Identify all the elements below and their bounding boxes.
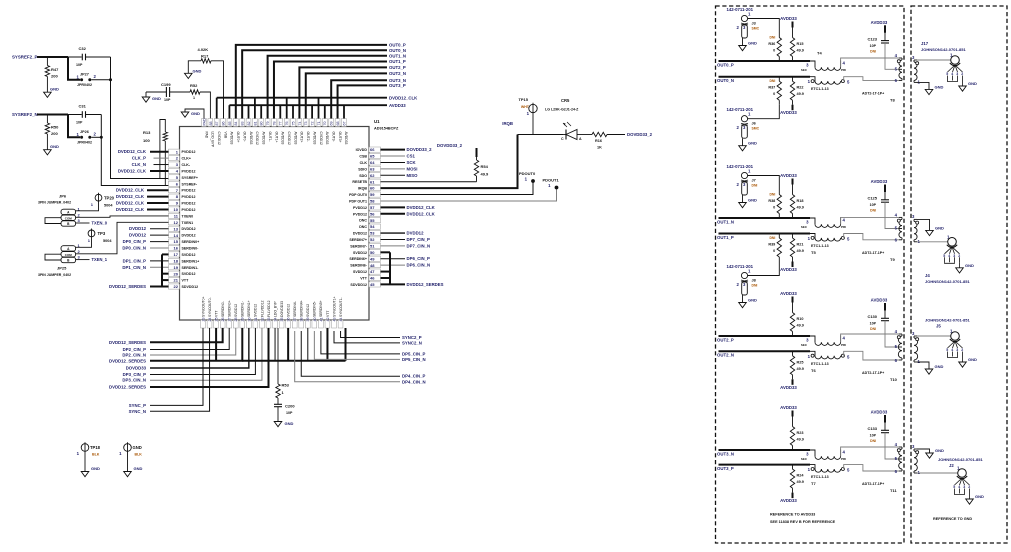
- svg-text:5004: 5004: [103, 239, 112, 243]
- connector J7 142-0711-201: [727, 164, 758, 208]
- svg-text:43: 43: [332, 318, 336, 322]
- svg-text:DVDD12_SERDES: DVDD12_SERDES: [109, 284, 146, 289]
- svg-text:42: 42: [326, 318, 330, 322]
- svg-text:22: 22: [174, 284, 179, 289]
- svg-text:OUT2_P: OUT2_P: [717, 337, 734, 342]
- svg-text:10: 10: [174, 207, 179, 212]
- svg-text:16: 16: [174, 246, 179, 251]
- svg-text:R22: R22: [797, 86, 804, 90]
- wire OUT1_P: [274, 62, 387, 119]
- svg-text:45: 45: [370, 282, 375, 287]
- resistor R16: [592, 132, 607, 136]
- wire DOVDD33 bottom-left: [150, 328, 249, 368]
- svg-text:CS1: CS1: [407, 154, 416, 159]
- svg-text:COM: COM: [65, 216, 73, 220]
- svg-text:85: 85: [228, 122, 232, 126]
- svg-text:SVDD12: SVDD12: [353, 251, 367, 255]
- wire JP25 COM-B bracket: [45, 254, 61, 260]
- svg-text:J6: J6: [752, 122, 756, 126]
- svg-text:13: 13: [174, 226, 179, 231]
- svg-text:34: 34: [273, 318, 277, 322]
- wire JP6 COM-B bracket: [45, 218, 61, 224]
- svg-text:26: 26: [221, 318, 225, 322]
- svg-text:GND: GND: [935, 84, 944, 89]
- svg-text:79: 79: [266, 122, 270, 126]
- test point TP15: [529, 104, 537, 112]
- wire pin53 DVDD12: [381, 232, 406, 234]
- svg-text:T9: T9: [890, 257, 895, 262]
- svg-text:SERDIN0+: SERDIN0+: [182, 240, 200, 244]
- svg-text:ETC1-1-13: ETC1-1-13: [811, 475, 829, 479]
- wire pin65 CS1: [381, 155, 406, 157]
- svg-text:TP3: TP3: [98, 231, 106, 236]
- svg-text:DP4_CIN_P: DP4_CIN_P: [402, 374, 426, 379]
- svg-text:AVDD33: AVDD33: [389, 103, 406, 108]
- wire PDOUT1 pin58: [381, 189, 557, 201]
- wire T5 pin4 to T9 pin4: [841, 217, 899, 224]
- resistor R25: [792, 351, 794, 356]
- wire TP15 node: [518, 134, 564, 136]
- svg-text:AVDD33: AVDD33: [780, 385, 797, 390]
- svg-text:SVDD12: SVDD12: [182, 272, 196, 276]
- test point GND: [124, 444, 132, 452]
- svg-text:49.9: 49.9: [797, 49, 804, 53]
- resistor R10: [792, 303, 794, 309]
- wire OUT2_N: [719, 350, 811, 352]
- wire pin62 MISO: [381, 174, 406, 176]
- svg-text:ADT2-1T-1P+: ADT2-1T-1P+: [862, 482, 884, 486]
- svg-text:R13: R13: [143, 130, 151, 135]
- wire DVDD12_SERDES bottom-left: [150, 328, 242, 361]
- svg-text:74: 74: [298, 122, 302, 126]
- svg-text:OUT3_P: OUT3_P: [717, 466, 734, 471]
- svg-text:OUT0-: OUT0-: [242, 132, 246, 142]
- svg-text:46: 46: [370, 276, 375, 281]
- svg-text:BLK: BLK: [92, 453, 100, 457]
- ground R47: [44, 92, 52, 97]
- svg-text:GND: GND: [134, 466, 143, 471]
- svg-text:C123: C123: [867, 36, 877, 41]
- op-amp U1 AD9154 IC body: [180, 127, 370, 321]
- svg-text:47: 47: [370, 269, 375, 274]
- svg-text:SERDIN7+: SERDIN7+: [349, 238, 367, 242]
- svg-text:200: 200: [51, 74, 58, 79]
- svg-text:OUT1_P: OUT1_P: [717, 235, 734, 240]
- svg-text:T4: T4: [817, 51, 822, 56]
- svg-text:JP26: JP26: [80, 130, 89, 134]
- svg-text:4: 4: [958, 485, 960, 489]
- wire DP4_CIN_N bottom-right: [295, 331, 400, 382]
- svg-text:10P: 10P: [870, 322, 877, 326]
- wire T4 pin4 to T8 pin4: [841, 58, 899, 67]
- wire pin16 DP0_CIN_N: [150, 247, 169, 249]
- svg-text:44: 44: [339, 318, 343, 322]
- svg-text:J4: J4: [925, 273, 930, 278]
- wire DP2_CIN_P bottom-left: [150, 328, 229, 350]
- wire pin14 DVDD12: [150, 234, 169, 236]
- svg-text:AVDD33: AVDD33: [230, 132, 234, 145]
- svg-text:DVDD12_CLK: DVDD12_CLK: [116, 207, 145, 212]
- dashed box GND reference: [911, 6, 1007, 543]
- svg-text:WHT: WHT: [521, 105, 530, 109]
- svg-text:OUT3_P: OUT3_P: [389, 83, 406, 88]
- wire T4 pin5 to T8 pin6: [844, 77, 899, 81]
- transformer T4 ETC1-1-13: [801, 51, 850, 92]
- svg-text:JOHNSON142-0701-851: JOHNSON142-0701-851: [921, 47, 966, 52]
- svg-text:GND: GND: [193, 69, 202, 74]
- svg-text:AVDD33: AVDD33: [780, 498, 797, 503]
- svg-text:C31: C31: [79, 104, 87, 109]
- svg-text:84: 84: [234, 122, 238, 126]
- svg-text:DP4_CIN_N: DP4_CIN_N: [402, 379, 426, 384]
- wire C31 to node: [86, 114, 102, 116]
- svg-text:OUT0_P: OUT0_P: [717, 62, 734, 67]
- svg-text:C130: C130: [867, 314, 877, 319]
- svg-text:4.02K: 4.02K: [198, 47, 209, 52]
- svg-text:PRI: PRI: [841, 225, 846, 229]
- svg-text:DVDD12_SERDES: DVDD12_SERDES: [109, 358, 146, 363]
- svg-text:U1: U1: [374, 119, 380, 124]
- svg-text:40: 40: [313, 318, 317, 322]
- svg-text:0: 0: [773, 49, 775, 53]
- svg-text:R54: R54: [481, 164, 489, 169]
- svg-text:49.9: 49.9: [481, 172, 490, 177]
- svg-text:GND: GND: [935, 448, 944, 453]
- capacitor C200: [277, 398, 279, 404]
- svg-text:DVDD12_SERDES: DVDD12_SERDES: [109, 385, 146, 390]
- svg-text:C200: C200: [285, 404, 295, 409]
- node junction: [109, 78, 112, 81]
- svg-text:SEE 11838 REV B FOR REFERENCE: SEE 11838 REV B FOR REFERENCE: [770, 520, 836, 524]
- svg-text:DNI: DNI: [752, 284, 758, 288]
- resistor R21: [792, 234, 794, 239]
- svg-text:OUT1_P: OUT1_P: [389, 59, 406, 64]
- transformer T11 ADT2-1T-1P+: [862, 442, 921, 493]
- wire SYSREF_P vertical to pin5: [111, 57, 170, 179]
- wire T8 pin3 to jack: [917, 59, 951, 61]
- svg-text:SVDD12: SVDD12: [234, 304, 238, 317]
- connector J4 JOHNSON142-0701-851: [925, 234, 974, 284]
- svg-text:OUT2_N: OUT2_N: [389, 71, 406, 76]
- svg-text:REFERENCE TO AVDD33: REFERENCE TO AVDD33: [770, 513, 815, 517]
- wire DVDD12_SERDES bottom-left: [150, 328, 223, 342]
- resistor R23: [792, 417, 794, 423]
- svg-text:R21: R21: [797, 243, 804, 247]
- svg-text:CLK_P: CLK_P: [132, 156, 146, 161]
- svg-text:64: 64: [370, 160, 375, 165]
- svg-text:3: 3: [963, 485, 965, 489]
- svg-text:PVDD12: PVDD12: [353, 206, 367, 210]
- wire pin10 DVDD12_CLK: [147, 208, 169, 210]
- wire T10 pin1 to gnd: [917, 362, 929, 369]
- svg-text:DOVDD33: DOVDD33: [280, 301, 284, 317]
- svg-text:65: 65: [370, 154, 375, 159]
- U1 left pins: [169, 149, 200, 289]
- connector J8 142-0711-201: [727, 264, 758, 308]
- wire R52 to LDO_BYP pin: [200, 92, 210, 119]
- svg-text:53: 53: [370, 231, 375, 236]
- svg-text:83: 83: [241, 122, 245, 126]
- wire pin1 DVDD12_CLK: [150, 151, 169, 153]
- svg-text:OUT1-: OUT1-: [268, 132, 272, 142]
- svg-text:75: 75: [291, 122, 295, 126]
- svg-text:SERDIN7-: SERDIN7-: [350, 244, 368, 248]
- wire OUT0_P: [236, 45, 387, 119]
- resistor R15: [792, 28, 794, 34]
- svg-text:ETC1-1-13: ETC1-1-13: [811, 244, 829, 248]
- wire T11 pin3 to gnd: [917, 449, 930, 453]
- svg-text:DVDD12: DVDD12: [182, 234, 196, 238]
- svg-text:23: 23: [201, 318, 205, 322]
- wire TP20 to JP6 pin1: [76, 201, 99, 211]
- svg-text:2: 2: [961, 72, 963, 76]
- svg-text:JOHNSON142-0701-851: JOHNSON142-0701-851: [925, 318, 970, 323]
- svg-text:ETC1-1-13: ETC1-1-13: [811, 362, 829, 366]
- wire JP26 pin2: [91, 136, 101, 138]
- svg-text:SVDD12: SVDD12: [306, 304, 310, 317]
- wire DP4_CIN_P bottom-right: [301, 331, 400, 376]
- svg-text:PDP OUT0: PDP OUT0: [349, 193, 367, 197]
- svg-text:SYNCOUT0+: SYNCOUT0+: [201, 297, 205, 317]
- svg-text:ADT2-1T-1P+: ADT2-1T-1P+: [862, 91, 884, 95]
- svg-text:DVDD12_SERDES: DVDD12_SERDES: [109, 340, 146, 345]
- svg-text:58: 58: [370, 199, 375, 204]
- svg-text:10P: 10P: [164, 98, 171, 102]
- svg-text:LDO_BYP: LDO_BYP: [211, 132, 215, 148]
- svg-text:DVDD12: DVDD12: [182, 227, 196, 231]
- svg-text:IOVDD: IOVDD: [356, 148, 368, 152]
- wire T6 pin4 to T10 pin4: [841, 334, 899, 342]
- svg-text:DNI: DNI: [870, 209, 876, 213]
- svg-text:86: 86: [221, 122, 225, 126]
- svg-text:SVDD12: SVDD12: [353, 270, 367, 274]
- svg-text:20: 20: [174, 271, 179, 276]
- svg-text:GND: GND: [285, 421, 294, 426]
- svg-text:AVDD33: AVDD33: [780, 173, 797, 178]
- wire pin4 DVDD12_CLK: [150, 170, 169, 172]
- svg-text:GND: GND: [748, 141, 757, 146]
- wire T7 pin4 to T11 pin4: [841, 447, 899, 456]
- svg-text:PDOUT0: PDOUT0: [519, 171, 536, 176]
- svg-text:J3: J3: [752, 22, 756, 26]
- svg-text:DNI: DNI: [769, 36, 775, 40]
- svg-text:200: 200: [51, 131, 58, 136]
- wire pin57 DVDD12_CLK: [381, 206, 406, 208]
- wire SYSREF2_N: [37, 114, 68, 116]
- wire TXEN_0 stub: [76, 222, 90, 224]
- svg-text:62: 62: [370, 173, 375, 178]
- svg-text:DNC: DNC: [359, 219, 367, 223]
- svg-text:OUT0_P: OUT0_P: [389, 43, 406, 48]
- test point TP18: [81, 444, 89, 452]
- wire pin19 DP1_CIN_N: [150, 266, 169, 268]
- svg-text:SYNC_P: SYNC_P: [129, 403, 146, 408]
- svg-text:DP2_CIN_P: DP2_CIN_P: [123, 347, 147, 352]
- wire OUT2_P: [299, 67, 387, 118]
- ground C199: [142, 97, 150, 102]
- resistor R39 DNI: [778, 234, 780, 239]
- svg-text:57: 57: [370, 205, 375, 210]
- resistor R18: [792, 185, 794, 191]
- wire T9 pin1 to jack: [917, 241, 948, 243]
- svg-text:COM: COM: [65, 253, 73, 257]
- svg-text:33: 33: [267, 318, 271, 322]
- svg-text:ETC1-1-13: ETC1-1-13: [811, 87, 829, 91]
- svg-text:71: 71: [317, 122, 321, 126]
- svg-text:DP1_CIN_P: DP1_CIN_P: [123, 258, 147, 263]
- svg-text:J17: J17: [921, 41, 929, 46]
- U1 right pins: [349, 147, 380, 287]
- svg-text:OUT1_N: OUT1_N: [717, 219, 734, 224]
- svg-text:T8: T8: [890, 97, 895, 102]
- resistor R50: [46, 115, 48, 124]
- svg-text:SERDIN0-: SERDIN0-: [221, 301, 225, 317]
- svg-text:0: 0: [773, 92, 775, 96]
- svg-text:DVDD12_CLK: DVDD12_CLK: [407, 205, 436, 210]
- svg-text:ADT2-1T-1P+: ADT2-1T-1P+: [862, 251, 884, 255]
- svg-text:SEC: SEC: [801, 343, 808, 347]
- svg-text:DNI: DNI: [870, 439, 876, 443]
- wire OUT1_P: [719, 233, 811, 235]
- svg-text:81: 81: [253, 122, 257, 126]
- svg-text:28: 28: [234, 318, 238, 322]
- svg-text:R23: R23: [797, 431, 804, 435]
- svg-text:SYSREF2_P: SYSREF2_P: [12, 55, 37, 60]
- svg-text:25: 25: [215, 318, 219, 322]
- wire LDO stub p34: [274, 328, 276, 361]
- wire IRQB pin60: [381, 135, 518, 189]
- svg-text:14: 14: [174, 233, 179, 238]
- wire DP3_CIN_N bottom-left: [150, 328, 262, 380]
- svg-text:52: 52: [370, 237, 375, 242]
- svg-text:48: 48: [370, 263, 375, 268]
- svg-text:R25: R25: [797, 360, 804, 364]
- wire DVDD12_SERDES bus pins 17,20,21,22: [161, 254, 163, 286]
- wire T9 pin3 to gnd: [917, 219, 930, 230]
- svg-text:GND: GND: [50, 87, 59, 92]
- svg-text:R18: R18: [797, 199, 804, 203]
- svg-text:AVDD33: AVDD33: [312, 132, 316, 145]
- svg-text:0: 0: [773, 249, 775, 253]
- svg-text:R53: R53: [282, 383, 290, 388]
- wire DVDD12_CLK top rail: [217, 97, 387, 99]
- svg-text:12: 12: [174, 220, 179, 225]
- svg-text:DVDD12_SERDES: DVDD12_SERDES: [407, 282, 444, 287]
- svg-text:55: 55: [370, 218, 375, 223]
- svg-text:JOHNSON142-0701-851: JOHNSON142-0701-851: [925, 279, 970, 284]
- svg-text:OUT3+: OUT3+: [338, 132, 342, 143]
- svg-text:63: 63: [370, 166, 375, 171]
- svg-text:SERDIN5-: SERDIN5-: [313, 301, 317, 317]
- svg-text:SYSREF+: SYSREF+: [182, 176, 198, 180]
- svg-text:A: A: [579, 137, 582, 141]
- wire SVDD stub p39: [307, 328, 309, 361]
- wire pin3 CLK_N: [154, 164, 169, 166]
- svg-text:AVDD33: AVDD33: [780, 267, 797, 272]
- svg-text:50: 50: [370, 250, 375, 255]
- ground PAD: [185, 109, 204, 119]
- wire pin63 MOSI: [381, 168, 406, 170]
- node PDOUT1: [555, 186, 559, 190]
- svg-text:2: 2: [958, 254, 960, 258]
- svg-text:SYNC_N: SYNC_N: [129, 409, 146, 414]
- svg-text:MISO: MISO: [407, 173, 419, 178]
- wire OUT2_P: [719, 335, 811, 337]
- wire SYSREF_N vertical to pin6: [101, 115, 169, 186]
- wire OUT3_N: [719, 449, 811, 451]
- svg-text:CR5: CR5: [561, 98, 570, 103]
- svg-text:TXEN0: TXEN0: [182, 214, 194, 218]
- svg-text:R10: R10: [797, 317, 804, 321]
- svg-text:3: 3: [956, 72, 958, 76]
- svg-text:DVDD12_CLK: DVDD12_CLK: [389, 95, 418, 100]
- svg-text:PVDD12: PVDD12: [353, 212, 367, 216]
- svg-text:SERDIN5+: SERDIN5+: [319, 300, 323, 317]
- wire OUT0_P: [719, 60, 811, 62]
- U1 bottom pins: [201, 297, 343, 328]
- svg-text:21: 21: [174, 278, 179, 283]
- svg-text:SEC: SEC: [801, 68, 808, 72]
- svg-text:C125: C125: [867, 196, 877, 201]
- wire DP5_CIN_P bottom-right: [321, 331, 400, 354]
- svg-text:DOVDD33_2: DOVDD33_2: [627, 132, 653, 137]
- svg-text:SDVDD12: SDVDD12: [182, 285, 199, 289]
- wire pin7 DVDD12_CLK: [147, 189, 169, 191]
- wire pin2 CLK_P: [154, 157, 169, 159]
- svg-text:T6: T6: [811, 368, 816, 373]
- svg-text:5: 5: [946, 72, 948, 76]
- svg-text:OUT3-: OUT3-: [332, 132, 336, 142]
- svg-text:SYSREF2_N: SYSREF2_N: [12, 112, 38, 117]
- connector J17 JOHNSON142-0701-851: [921, 41, 977, 91]
- wire TXEN_1 stub: [76, 259, 90, 261]
- wire SYSREF2_P: [37, 56, 68, 58]
- svg-text:SMC: SMC: [752, 27, 760, 31]
- connector J6 142-0711-201: [727, 107, 760, 151]
- svg-text:AVDD33: AVDD33: [780, 291, 797, 296]
- test point TP3: [88, 230, 95, 237]
- svg-text:DP3_CIN_N: DP3_CIN_N: [122, 378, 146, 383]
- svg-text:R39: R39: [768, 243, 775, 247]
- svg-text:AVDD33: AVDD33: [871, 410, 888, 415]
- svg-text:87: 87: [215, 122, 219, 126]
- svg-text:35: 35: [280, 318, 284, 322]
- svg-text:REFERENCE TO GND: REFERENCE TO GND: [933, 517, 972, 521]
- svg-text:DP6_CIN_P: DP6_CIN_P: [407, 256, 431, 261]
- svg-text:JP27: JP27: [80, 72, 89, 76]
- svg-text:AVDD33: AVDD33: [780, 16, 797, 21]
- svg-text:VTT: VTT: [182, 279, 190, 283]
- svg-text:GND: GND: [133, 445, 142, 450]
- svg-text:T10: T10: [890, 377, 898, 382]
- svg-text:DP5_CIN_P: DP5_CIN_P: [402, 351, 426, 356]
- svg-text:PDOUT1: PDOUT1: [543, 178, 560, 183]
- svg-text:VTT: VTT: [360, 277, 368, 281]
- svg-text:80: 80: [260, 122, 264, 126]
- wire pin56 DVDD12_CLK: [381, 213, 406, 215]
- svg-text:FLLVDD12: FLLVDD12: [267, 300, 271, 317]
- svg-text:32: 32: [260, 318, 264, 322]
- svg-text:AVDD33: AVDD33: [325, 132, 329, 145]
- svg-text:77: 77: [279, 122, 283, 126]
- svg-text:10P: 10P: [870, 44, 877, 48]
- connector J3 142-0711-201: [727, 7, 760, 51]
- wire J3 pin1 to R: [748, 19, 780, 34]
- node junction: [100, 136, 103, 139]
- wire SYNC2_P bottom-right: [341, 331, 400, 338]
- svg-text:TP20: TP20: [104, 196, 115, 201]
- svg-text:72: 72: [311, 122, 315, 126]
